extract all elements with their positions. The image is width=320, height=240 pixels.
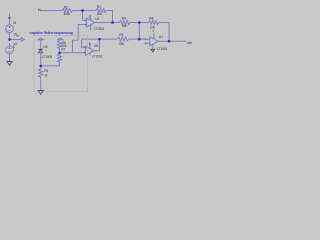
- svg-text:R7: R7: [61, 47, 65, 51]
- svg-text:15: 15: [13, 33, 17, 37]
- wire U2+ jog: [73, 40, 79, 52]
- junction feedback/out rail: [111, 21, 113, 23]
- wire junction up to top rail: [138, 23, 140, 40]
- wire dome to zener: [40, 40, 42, 50]
- svg-text:5: 5: [13, 45, 15, 49]
- wire V1 bottom to junction: [9, 33, 11, 40]
- svg-text:LT1001: LT1001: [157, 47, 168, 51]
- U1 power pin up: [153, 32, 155, 38]
- wire R1 right to feedback corner: [107, 11, 113, 23]
- U1 power pin down to ground: [152, 44, 154, 49]
- svg-text:U2: U2: [95, 17, 99, 21]
- resistor R7 vertical: [58, 53, 62, 66]
- svg-text:LT1001: LT1001: [92, 54, 103, 58]
- svg-text:100k: 100k: [63, 12, 70, 16]
- junction U1 output: [168, 40, 170, 42]
- wire V1 top stub: [9, 14, 11, 25]
- junction V1/V2: [8, 38, 10, 40]
- ground U1 V-: [151, 49, 155, 52]
- voltage source V1: [6, 25, 14, 33]
- resistor R5 vertical: [39, 68, 43, 79]
- junction R4/R8: [138, 21, 140, 23]
- op-amp U1 triangle: [150, 37, 158, 46]
- svg-text:negative Referenzspannung: negative Referenzspannung: [30, 31, 74, 35]
- svg-text:R1: R1: [97, 5, 101, 9]
- wire zener to junction: [40, 53, 42, 68]
- wire mid resistor to U1: [129, 38, 145, 40]
- wire R2 to summing junction: [73, 10, 97, 12]
- voltage source V2: [6, 46, 14, 54]
- op-amp U6 triangle: [86, 46, 94, 55]
- junction mid rail / vertical: [138, 38, 140, 40]
- wire mid rail left corner down to U6 inv input: [82, 39, 86, 47]
- ground V2: [7, 62, 12, 66]
- resistor R8: [148, 21, 159, 25]
- op-amp U1 input stubs: [145, 39, 150, 43]
- junction LT1009 top: [40, 65, 42, 67]
- svg-text:5V: 5V: [8, 16, 11, 20]
- svg-text:out: out: [187, 41, 192, 45]
- resistor R3 mid rail: [118, 37, 129, 41]
- wire R4 to junction: [130, 22, 148, 24]
- op-amp U2 +/- marks: [85, 20, 87, 26]
- resistor R1: [96, 9, 106, 13]
- svg-text:LT1001: LT1001: [94, 27, 105, 31]
- svg-text:LT1009: LT1009: [42, 55, 53, 59]
- dome flag right: [57, 38, 64, 39]
- svg-text:U6: U6: [94, 44, 98, 48]
- wire U2 +input from below: [78, 25, 86, 41]
- resistor R6 vertical: [58, 40, 62, 52]
- resistor R2: [62, 9, 73, 13]
- ground R5 bottom: [38, 91, 43, 95]
- svg-text:39k: 39k: [119, 42, 125, 46]
- dome flag left: [38, 38, 45, 39]
- comment box negative reference: [34, 36, 88, 92]
- svg-text:U1: U1: [159, 35, 163, 39]
- port flag arrow: [21, 38, 25, 41]
- svg-text:R8: R8: [149, 16, 153, 20]
- op-amp U6 +/- marks: [84, 46, 86, 54]
- junction dots: [8, 9, 170, 67]
- svg-text:R3: R3: [119, 33, 123, 37]
- svg-text:1k: 1k: [44, 74, 48, 78]
- wire U6 output up to mid rail: [94, 39, 100, 51]
- wire V2 bottom to ground: [9, 54, 11, 62]
- svg-text:R2: R2: [64, 6, 68, 10]
- wire R8 right corner down to out rail: [159, 23, 169, 42]
- U6 power pin up: [89, 42, 91, 55]
- zener diode U5: [38, 49, 43, 53]
- wire U6 +input from R6 divider: [60, 52, 86, 54]
- op-amp U1 +/- marks: [144, 38, 146, 44]
- svg-text:in: in: [38, 8, 41, 12]
- svg-text:39k: 39k: [122, 24, 128, 28]
- svg-text:R4: R4: [122, 17, 126, 21]
- wire junction to port flag: [10, 39, 22, 41]
- junction R6/R7 divider: [58, 52, 60, 54]
- wire U1 output to out: [158, 40, 186, 42]
- wire V2 top: [9, 43, 11, 46]
- svg-text:U5: U5: [43, 45, 47, 49]
- wire R7 bottom corner to LT1009 junction: [41, 65, 60, 67]
- V2 +/- marks: [9, 47, 11, 52]
- svg-text:10k: 10k: [97, 12, 103, 16]
- junction summing node: [81, 9, 83, 11]
- svg-text:R5: R5: [44, 69, 48, 73]
- svg-text:V1: V1: [13, 21, 17, 25]
- junction U6 feedback: [98, 38, 100, 40]
- U2 power pin up: [90, 15, 92, 31]
- resistor R4 top rail: [120, 21, 131, 25]
- wire R5 to ground: [40, 79, 42, 90]
- wire summing junction down to U2 inv input: [83, 11, 87, 21]
- op-amp U2 triangle: [87, 18, 95, 27]
- wire in to R2: [41, 10, 63, 12]
- V1 +/- marks: [9, 26, 11, 31]
- mid rail wire: [82, 38, 118, 40]
- wire U2 output rail: [95, 22, 120, 24]
